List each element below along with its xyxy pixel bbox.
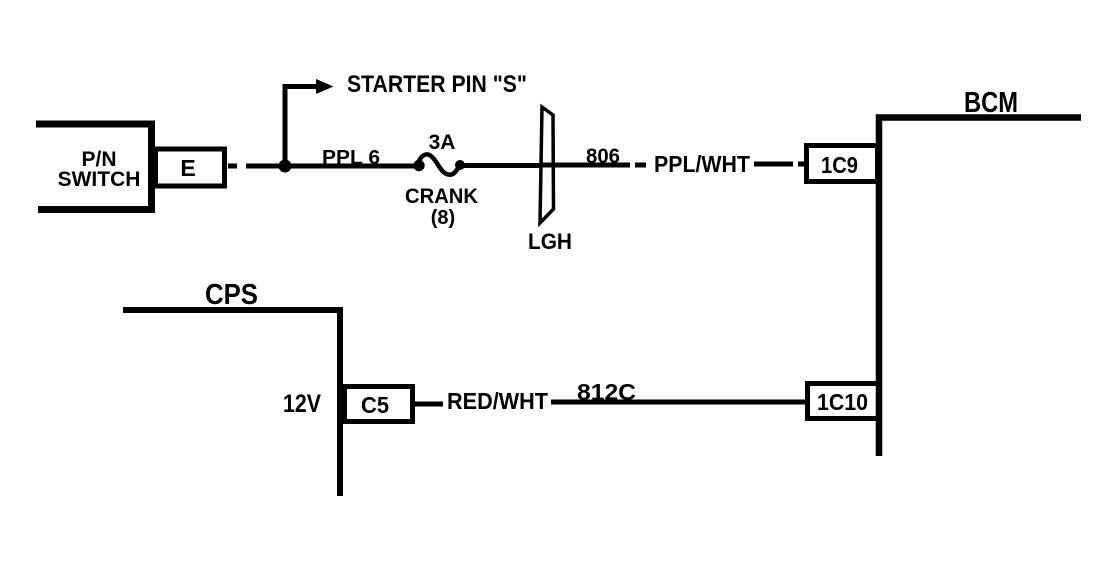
connector LGH symbol xyxy=(540,107,554,223)
svg-text:1C10: 1C10 xyxy=(817,389,868,415)
BCM pin 1C9 box xyxy=(807,146,878,182)
wire RED/WHT to 1C10 with circuit 812C xyxy=(551,400,805,405)
CPS pin C5 box xyxy=(345,387,413,422)
svg-text:1C9: 1C9 xyxy=(821,152,858,178)
connector E box xyxy=(156,149,225,186)
wire C5 to RED/WHT xyxy=(415,402,443,407)
arrowhead to starter xyxy=(316,79,334,94)
svg-text:E: E xyxy=(180,155,195,181)
svg-text:12V: 12V xyxy=(283,390,321,418)
svg-text:BCM: BCM xyxy=(964,87,1018,119)
wire LGH to PPL/WHT with circuit 806 xyxy=(540,163,646,168)
wire fuse to connector LGH xyxy=(464,163,540,168)
fuse CRANK 3A xyxy=(413,160,424,171)
wire junction to fuse xyxy=(290,164,415,169)
svg-text:(8): (8) xyxy=(431,207,455,229)
svg-text:806: 806 xyxy=(586,145,620,168)
svg-text:PPL/WHT: PPL/WHT xyxy=(654,151,750,177)
BCM component outline xyxy=(879,118,1081,457)
wire PPL/WHT to 1C9 xyxy=(754,162,806,167)
svg-text:STARTER PIN "S": STARTER PIN "S" xyxy=(347,71,527,98)
svg-text:RED/WHT: RED/WHT xyxy=(447,388,548,414)
svg-text:3A: 3A xyxy=(429,131,456,154)
svg-text:LGH: LGH xyxy=(528,229,572,254)
wire junction up to starter tap xyxy=(283,84,288,166)
svg-text:CRANK: CRANK xyxy=(405,185,478,208)
junction node xyxy=(279,160,292,173)
BCM pin 1C10 box xyxy=(808,384,879,419)
svg-text:CPS: CPS xyxy=(205,279,258,311)
wire E to junction xyxy=(228,164,282,169)
wire starter tap horizontal xyxy=(283,84,317,89)
svg-text:PPL 6: PPL 6 xyxy=(322,147,380,169)
P/N switch component outline xyxy=(36,124,152,210)
svg-text:SWITCH: SWITCH xyxy=(58,168,141,191)
svg-text:812C: 812C xyxy=(577,379,636,405)
svg-text:C5: C5 xyxy=(361,392,389,418)
CPS component outline xyxy=(123,310,340,496)
